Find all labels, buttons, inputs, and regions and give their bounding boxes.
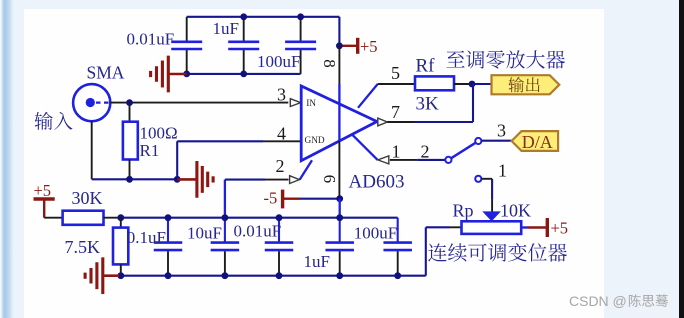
svg-text:100uF: 100uF xyxy=(257,52,300,71)
ground xyxy=(85,257,119,294)
label 1uF xyxy=(213,19,239,38)
label 7.5K xyxy=(65,237,101,257)
svg-text:100Ω: 100Ω xyxy=(140,124,178,143)
label 0.1uF xyxy=(127,228,166,247)
power -5 xyxy=(264,189,301,209)
wire xyxy=(104,217,121,219)
label 1uF xyxy=(304,252,330,271)
resistor 30K xyxy=(63,211,104,225)
wire xyxy=(358,84,415,108)
capacitor 100uF xyxy=(285,42,316,49)
label R1 xyxy=(140,141,160,160)
node xyxy=(117,214,124,221)
wire xyxy=(103,275,426,277)
wire xyxy=(300,160,312,179)
svg-text:+5: +5 xyxy=(360,37,378,56)
label AD603 xyxy=(349,171,405,192)
wire xyxy=(300,198,340,200)
watermark xyxy=(569,293,668,309)
svg-text:0.01uF: 0.01uF xyxy=(127,30,175,49)
wire xyxy=(177,140,301,142)
pin 7 arrow xyxy=(378,118,387,126)
wire xyxy=(187,73,301,75)
pin 6 label xyxy=(320,175,339,184)
svg-text:1: 1 xyxy=(392,142,401,162)
label 10K xyxy=(500,201,531,221)
svg-text:3: 3 xyxy=(277,85,286,105)
svg-text:1uF: 1uF xyxy=(304,252,330,271)
node xyxy=(117,272,401,279)
pin 3 label xyxy=(277,85,286,105)
flag D/A xyxy=(512,131,558,152)
pin 3 arrow xyxy=(290,99,300,107)
svg-text:4: 4 xyxy=(277,124,286,144)
pin 7 label xyxy=(391,102,400,122)
pin 1 label xyxy=(392,142,401,162)
wire xyxy=(352,134,378,160)
node xyxy=(165,214,344,221)
pin 1 arrow xyxy=(378,156,389,164)
wire xyxy=(186,17,188,74)
svg-text:7: 7 xyxy=(391,102,400,122)
node xyxy=(183,71,247,78)
label 10uF xyxy=(187,224,222,243)
label 3 xyxy=(497,121,506,141)
svg-text:AD603: AD603 xyxy=(349,171,405,192)
wire xyxy=(44,217,62,219)
wire xyxy=(300,17,302,74)
svg-text:2: 2 xyxy=(276,156,285,176)
svg-text:5: 5 xyxy=(391,63,400,83)
resistor 7.5K xyxy=(113,218,128,276)
wire xyxy=(339,218,341,276)
svg-text:+5: +5 xyxy=(34,181,52,200)
wire xyxy=(225,179,289,181)
wire xyxy=(110,102,288,104)
wire xyxy=(129,103,131,122)
wire xyxy=(167,218,169,276)
power +5 xyxy=(34,181,55,218)
label 3K xyxy=(416,94,440,115)
svg-text:8: 8 xyxy=(320,59,339,68)
label adjustable xyxy=(428,243,567,262)
pin 4 label xyxy=(277,124,286,144)
wire xyxy=(338,17,340,46)
wire xyxy=(224,180,226,218)
svg-text:3K: 3K xyxy=(416,94,440,115)
capacitor 0.01uF xyxy=(171,42,202,49)
label to-zero-amp xyxy=(446,50,565,68)
capacitor 1uF xyxy=(228,42,259,49)
label 100ohm xyxy=(140,124,178,143)
svg-text:1uF: 1uF xyxy=(213,19,239,38)
wire xyxy=(426,227,462,275)
svg-text:IN: IN xyxy=(306,99,316,109)
label Rp xyxy=(453,201,474,221)
wire xyxy=(224,218,226,276)
svg-text:10uF: 10uF xyxy=(187,224,222,243)
right black bar xyxy=(679,0,684,318)
wire xyxy=(454,83,472,85)
label 0.01uF xyxy=(234,222,282,241)
node xyxy=(240,13,304,20)
label 30K xyxy=(72,188,103,208)
svg-text:10K: 10K xyxy=(500,201,531,221)
left gradient stripe xyxy=(0,0,14,318)
wire xyxy=(472,83,492,85)
wire xyxy=(176,141,178,179)
svg-text:100uF: 100uF xyxy=(354,224,397,243)
svg-text:GND: GND xyxy=(305,136,325,146)
wire xyxy=(390,159,445,161)
wire xyxy=(91,121,93,179)
pin 8 wire xyxy=(338,46,340,199)
wire xyxy=(521,226,527,228)
resistor R1 xyxy=(123,122,138,160)
node xyxy=(126,176,133,183)
node xyxy=(174,176,181,183)
potentiometer Rp xyxy=(462,221,522,234)
svg-text:30K: 30K xyxy=(72,188,103,208)
flag output xyxy=(492,75,560,94)
capacitor 1uF xyxy=(325,243,354,251)
resistor Rf xyxy=(415,76,454,90)
svg-text:3: 3 xyxy=(497,121,506,141)
svg-text:D/A: D/A xyxy=(522,132,553,152)
label 1 xyxy=(498,161,507,181)
label 100uF xyxy=(354,224,397,243)
svg-text:0.1uF: 0.1uF xyxy=(127,228,166,247)
switch contact xyxy=(445,157,451,163)
svg-text:-5: -5 xyxy=(264,189,278,208)
label 0.01uF xyxy=(127,30,175,49)
connector SMA xyxy=(73,84,112,121)
wire xyxy=(129,160,131,180)
svg-text:R1: R1 xyxy=(140,141,160,160)
capacitor 0.01uF xyxy=(265,243,294,251)
svg-text:SMA: SMA xyxy=(87,63,125,83)
label input xyxy=(35,112,73,130)
svg-text:6: 6 xyxy=(320,175,339,184)
svg-text:Rp: Rp xyxy=(453,201,474,221)
wire xyxy=(278,218,280,276)
wire xyxy=(187,16,340,18)
capacitor 100uF xyxy=(383,243,412,251)
label 2 xyxy=(421,142,430,162)
pin 5 label xyxy=(391,63,400,83)
svg-text:1: 1 xyxy=(498,161,507,181)
wire xyxy=(121,217,398,219)
power +5 xyxy=(341,37,378,56)
label Rf xyxy=(416,56,436,77)
wiper arrow xyxy=(482,211,501,221)
node xyxy=(126,99,133,106)
pin 8 label xyxy=(320,59,339,68)
svg-text:CSDN @: CSDN @ xyxy=(569,293,627,309)
svg-text:+5: +5 xyxy=(551,219,569,238)
svg-text:7.5K: 7.5K xyxy=(65,237,101,257)
wire xyxy=(481,179,492,212)
wire xyxy=(387,84,473,122)
ground xyxy=(151,56,187,93)
wire xyxy=(243,17,245,74)
label SMA xyxy=(87,63,125,83)
wire xyxy=(339,199,341,218)
label 100uF xyxy=(257,52,300,71)
switch arm xyxy=(451,143,476,159)
pin 2 label xyxy=(276,156,285,176)
capacitor 0.1uF xyxy=(154,243,183,251)
power +5 xyxy=(528,218,569,238)
switch contact xyxy=(475,138,481,144)
capacitor 10uF xyxy=(211,243,240,251)
pin 2 arrow xyxy=(290,176,300,184)
node xyxy=(336,195,343,202)
svg-text:Rf: Rf xyxy=(416,56,436,77)
wire xyxy=(92,178,178,180)
node xyxy=(469,81,476,88)
wire xyxy=(481,140,511,142)
switch contact xyxy=(475,176,481,182)
node xyxy=(336,42,343,49)
svg-text:0.01uF: 0.01uF xyxy=(234,222,282,241)
op-amp U1 AD603 xyxy=(301,86,377,161)
ground xyxy=(177,161,213,198)
svg-text:2: 2 xyxy=(421,142,430,162)
wire xyxy=(397,218,399,276)
